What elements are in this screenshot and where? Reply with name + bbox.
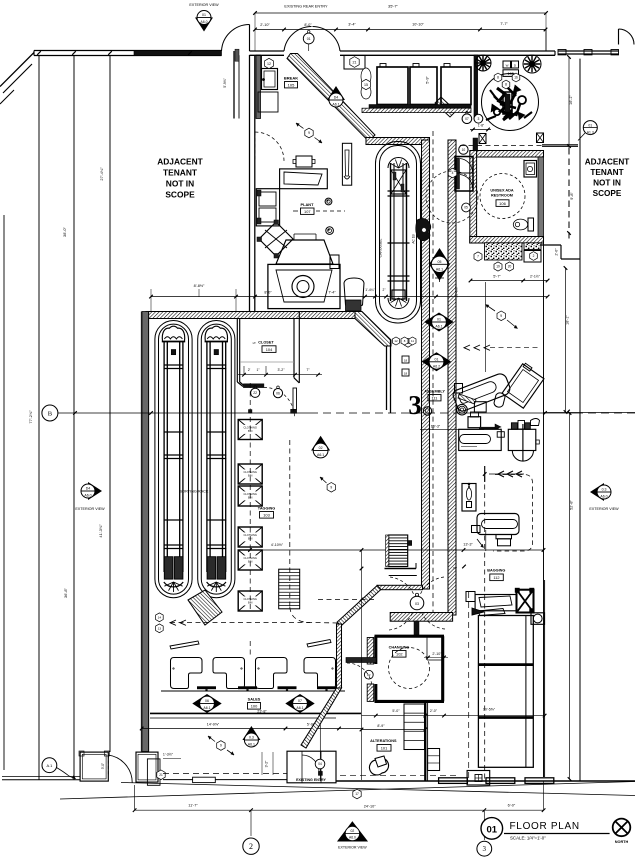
sorting room west gray wall bbox=[141, 312, 149, 752]
dim line mid window bbox=[443, 714, 547, 718]
alterations wall bbox=[425, 702, 427, 781]
mop sink fixture bbox=[524, 251, 541, 263]
spiral circle fixture 2 bbox=[423, 407, 431, 415]
keynote 9 hexagon mid bbox=[320, 477, 336, 492]
svg-text:06: 06 bbox=[205, 699, 209, 703]
sales west upper wall bbox=[387, 340, 391, 413]
changing bench shelf bbox=[346, 658, 376, 663]
dim 1'-3.5 bottom bbox=[163, 753, 181, 759]
svg-text:07: 07 bbox=[465, 117, 469, 121]
right lease line bbox=[579, 59, 581, 781]
big numeral 3 stamp bbox=[408, 390, 422, 420]
sorting rack conveyor 1 bbox=[155, 321, 192, 598]
svg-text:5'-7": 5'-7" bbox=[493, 274, 501, 278]
alterations label bbox=[370, 739, 397, 751]
storefront baseline left bbox=[2, 777, 80, 780]
svg-text:A6.0: A6.0 bbox=[200, 20, 207, 24]
bottom storefront frames bbox=[439, 778, 554, 784]
dim 27'-4 left bbox=[99, 167, 104, 181]
rear entry double door arcs bbox=[284, 27, 340, 52]
tile floor stipple box bbox=[485, 243, 523, 260]
svg-text:BAGGING: BAGGING bbox=[487, 569, 505, 573]
restroom turning circle dashed bbox=[480, 174, 525, 219]
spotting board fixture bbox=[462, 483, 476, 511]
tagging label bbox=[258, 507, 275, 519]
changing door keynote 02 bbox=[364, 670, 373, 679]
upper room west wall double bbox=[250, 55, 255, 311]
svg-text:CAROUSEL: CAROUSEL bbox=[379, 239, 383, 258]
svg-text:2: 2 bbox=[249, 842, 253, 851]
svg-text:01: 01 bbox=[437, 318, 441, 322]
section diamond 05/A6.1 bbox=[429, 248, 450, 282]
assembly machine 4 (serger) bbox=[508, 419, 539, 462]
hatched jog near break room SE bbox=[435, 97, 456, 117]
svg-text:2'-10": 2'-10" bbox=[432, 652, 442, 656]
svg-text:8'-8½": 8'-8½" bbox=[194, 284, 205, 288]
svg-text:0.3: 0.3 bbox=[602, 488, 607, 492]
svg-text:LT.: LT. bbox=[253, 341, 257, 345]
svg-text:18: 18 bbox=[404, 358, 408, 362]
svg-text:2'-0": 2'-0" bbox=[430, 709, 438, 713]
keynote 4 hexagon bbox=[448, 168, 456, 178]
svg-text:7'-7": 7'-7" bbox=[500, 22, 508, 26]
svg-text:RESTROOM: RESTROOM bbox=[491, 194, 513, 198]
existing rear entry text bbox=[284, 5, 328, 9]
svg-text:5'-9": 5'-9" bbox=[426, 76, 430, 84]
svg-text:TENANT: TENANT bbox=[163, 168, 198, 178]
locker base black band bbox=[369, 105, 471, 109]
pressing machine bbox=[268, 234, 340, 309]
svg-text:02: 02 bbox=[319, 446, 323, 450]
svg-text:9: 9 bbox=[220, 744, 222, 748]
svg-text:102: 102 bbox=[396, 651, 403, 656]
svg-text:3'-4": 3'-4" bbox=[348, 23, 356, 27]
hatched wall diagonal to corridor bbox=[355, 312, 391, 347]
svg-text:TAGGING: TAGGING bbox=[258, 507, 275, 511]
sales counter 4 bbox=[304, 658, 336, 689]
svg-text:EXISTING REAR ENTRY: EXISTING REAR ENTRY bbox=[284, 5, 328, 9]
keynote 03 circle bbox=[410, 593, 424, 610]
svg-text:A6.0: A6.0 bbox=[349, 835, 356, 839]
corridor centerline dashed bbox=[432, 131, 434, 620]
svg-text:CLOSET: CLOSET bbox=[258, 341, 274, 345]
corridor west hatched wall bbox=[422, 140, 430, 589]
adjacent tenant text right bbox=[585, 158, 630, 199]
clothing bin 5 bbox=[238, 550, 262, 570]
changing door dashed swing bbox=[347, 663, 372, 688]
exterior view marker D4/A6.0 bbox=[75, 482, 105, 511]
svg-text:104: 104 bbox=[266, 347, 273, 352]
svg-text:D4: D4 bbox=[86, 487, 91, 491]
restroom lavatory bbox=[524, 161, 537, 178]
adjacent tenant text left bbox=[157, 157, 203, 200]
svg-text:2": 2" bbox=[383, 288, 386, 292]
svg-text:112: 112 bbox=[493, 575, 499, 580]
ironing board bbox=[342, 143, 351, 185]
svg-text:01: 01 bbox=[435, 358, 439, 362]
sales counter 2 bbox=[213, 658, 245, 689]
svg-text:A6.0: A6.0 bbox=[600, 495, 607, 499]
svg-text:04: 04 bbox=[318, 762, 322, 766]
svg-text:12: 12 bbox=[394, 339, 398, 343]
svg-text:EXTERIOR VIEW: EXTERIOR VIEW bbox=[589, 507, 619, 511]
svg-text:17: 17 bbox=[355, 792, 359, 796]
svg-text:1'-8": 1'-8" bbox=[478, 124, 484, 128]
restroom west hatched wall bbox=[470, 138, 478, 243]
clothing bin 1 bbox=[238, 420, 262, 440]
svg-text:8: 8 bbox=[505, 83, 507, 87]
svg-text:103: 103 bbox=[263, 512, 270, 517]
conveyor room top hatched wall bbox=[366, 138, 430, 145]
svg-text:D4: D4 bbox=[334, 96, 339, 100]
svg-text:BIN: BIN bbox=[248, 600, 252, 604]
break room west wall bbox=[223, 49, 239, 118]
svg-text:03: 03 bbox=[415, 602, 419, 606]
sales counter 3 bbox=[256, 658, 288, 689]
svg-text:20: 20 bbox=[508, 265, 512, 269]
svg-text:14: 14 bbox=[158, 615, 162, 619]
svg-text:SCOPE: SCOPE bbox=[165, 190, 195, 200]
locker unit 2 bbox=[410, 64, 437, 105]
dim 41'-3 left bbox=[98, 524, 103, 538]
toilet bbox=[513, 218, 533, 231]
svg-text:7'-4": 7'-4" bbox=[328, 291, 336, 295]
sloped existing line A bbox=[121, 783, 635, 796]
assembly machine 2 (angled) bbox=[502, 362, 545, 408]
restroom north hatched wall bbox=[473, 151, 544, 158]
svg-text:38'-0": 38'-0" bbox=[62, 226, 67, 237]
keynote 12 hexagon bbox=[265, 58, 274, 68]
svg-text:ASSEMBLY: ASSEMBLY bbox=[424, 390, 445, 394]
wall jog right bbox=[540, 245, 580, 259]
svg-text:9: 9 bbox=[330, 486, 332, 490]
svg-text:101: 101 bbox=[381, 745, 388, 750]
entry vestibule bbox=[287, 751, 336, 783]
svg-text:16'-1": 16'-1" bbox=[569, 95, 573, 105]
machine E (bagging machine) bbox=[472, 514, 520, 535]
svg-text:8: 8 bbox=[497, 76, 499, 80]
closet label bbox=[253, 341, 276, 353]
svg-text:A.1: A.1 bbox=[46, 763, 52, 768]
svg-text:5'-0": 5'-0" bbox=[392, 709, 400, 713]
spiral plant 1 bbox=[325, 198, 332, 205]
svg-text:EXISTING ENTRY: EXISTING ENTRY bbox=[296, 778, 326, 782]
svg-text:0.3: 0.3 bbox=[249, 736, 254, 740]
svg-text:A6.1: A6.1 bbox=[203, 706, 210, 710]
grid bubble 2 bbox=[243, 838, 259, 854]
tenant demising line 1 bbox=[38, 56, 40, 781]
clothing bin 4 bbox=[238, 527, 262, 547]
keynote 17 hexagon bbox=[353, 789, 361, 799]
tenant demising line 2 bbox=[73, 56, 75, 781]
section diamond 02/A6.1 bbox=[311, 436, 330, 458]
svg-text:01: 01 bbox=[588, 123, 592, 127]
steps below stair bbox=[385, 563, 417, 576]
svg-text:CHANGING: CHANGING bbox=[389, 646, 410, 650]
svg-text:7: 7 bbox=[477, 255, 479, 259]
svg-text:77'-2⅝": 77'-2⅝" bbox=[28, 410, 33, 424]
restroom south hatched wall bbox=[470, 237, 544, 244]
svg-text:01: 01 bbox=[487, 825, 498, 836]
stockroom stair at corridor bbox=[386, 535, 412, 567]
svg-text:10'-3": 10'-3" bbox=[431, 425, 441, 429]
dim 52ft right bbox=[568, 411, 574, 781]
mech closet label boxes bbox=[503, 61, 519, 76]
dims under changing bbox=[360, 709, 446, 731]
restroom east gray wall bbox=[538, 157, 544, 237]
sloped existing line B bbox=[60, 782, 635, 800]
svg-text:35'-7": 35'-7" bbox=[388, 4, 399, 9]
shelf box with keynote 21 bbox=[344, 56, 365, 70]
dim 3'-3 rot bbox=[262, 752, 273, 775]
grid bubble B bbox=[42, 405, 58, 421]
svg-text:SCALE: 1/4"=1'-0": SCALE: 1/4"=1'-0" bbox=[510, 836, 546, 841]
keynote 9 hexagon assembly bbox=[486, 305, 518, 329]
changing room walls bbox=[367, 636, 444, 701]
sorting room north hatched wall bbox=[146, 312, 355, 319]
dim 4'-10 mid bbox=[244, 530, 545, 571]
dim 10'-3 bbox=[420, 425, 484, 430]
svg-text:05: 05 bbox=[464, 206, 468, 210]
sales label bbox=[248, 698, 261, 710]
storefront dashed centerline bbox=[163, 772, 287, 774]
svg-text:14'-9⅝": 14'-9⅝" bbox=[207, 723, 220, 727]
svg-text:3: 3 bbox=[483, 845, 487, 853]
storage cabinet bbox=[256, 189, 279, 226]
north exterior wall (double line with solid right half) bbox=[34, 51, 222, 56]
svg-text:16'-8⅝": 16'-8⅝" bbox=[455, 286, 459, 298]
svg-text:A1.3: A1.3 bbox=[587, 130, 594, 134]
dim row above racks bbox=[149, 284, 549, 311]
locker unit 1 bbox=[377, 64, 408, 105]
exterior view marker 01/A6.0 top bbox=[189, 3, 219, 32]
press table with wedge bbox=[280, 156, 328, 189]
storefront window bank bbox=[478, 616, 533, 768]
dim 10'-5 window bbox=[483, 708, 496, 712]
svg-text:19: 19 bbox=[496, 265, 500, 269]
svg-text:A6.2: A6.2 bbox=[433, 365, 440, 369]
svg-text:106: 106 bbox=[499, 201, 506, 206]
dim 9'-8 right bbox=[567, 144, 574, 200]
bottom boundary line bbox=[336, 780, 635, 782]
grid bubble A.1 bbox=[42, 758, 76, 779]
extension line left of changing bbox=[361, 550, 363, 780]
break room west gray wall band bbox=[256, 55, 261, 119]
keynote hexes near conveyor base bbox=[393, 337, 417, 345]
svg-text:11: 11 bbox=[411, 339, 414, 343]
svg-text:9'-8": 9'-8" bbox=[570, 192, 574, 200]
changing label bbox=[389, 646, 410, 658]
clothing bin 3 bbox=[238, 486, 262, 506]
svg-text:07: 07 bbox=[298, 699, 302, 703]
dim 35'-7 top bbox=[253, 4, 548, 52]
svg-text:02: 02 bbox=[351, 829, 355, 833]
svg-text:2': 2' bbox=[248, 368, 251, 372]
counter base ticks bbox=[161, 686, 345, 691]
svg-text:PLANT: PLANT bbox=[301, 202, 315, 207]
break room counter bbox=[258, 55, 278, 112]
keynote 7 hexagon bbox=[474, 252, 482, 261]
angled hatched storefront wall bbox=[301, 585, 423, 748]
svg-text:13'-3": 13'-3" bbox=[463, 543, 473, 547]
svg-text:ADJACENT: ADJACENT bbox=[585, 158, 630, 167]
tenant demising line 3 bbox=[109, 56, 111, 753]
break room east dark wall bbox=[474, 55, 478, 119]
fixture ellipses with keynote 15 bbox=[361, 68, 371, 99]
section diamond 01/A6.2 bbox=[422, 352, 451, 371]
exterior view marker 02/A6.0 bottom bbox=[338, 822, 367, 850]
svg-text:NORTH: NORTH bbox=[615, 840, 629, 844]
keynote 9 hexagon bottom bbox=[208, 736, 234, 755]
keynote 10 circle bbox=[459, 145, 468, 154]
section diamond D4/A6.1 bbox=[327, 86, 345, 107]
svg-text:41'-3⅜": 41'-3⅜" bbox=[98, 524, 103, 538]
garment steamer fixture bbox=[330, 255, 364, 311]
bagging label bbox=[487, 569, 505, 581]
plant scribble right bbox=[523, 55, 541, 73]
rear entry door 1 arc bbox=[222, 24, 250, 51]
upper room door dashed arc bbox=[255, 132, 284, 161]
carousel vertical text bbox=[379, 234, 416, 257]
right wall verticals bbox=[469, 580, 545, 780]
keynote 06 circle bbox=[273, 386, 282, 398]
svg-text:2'-10": 2'-10" bbox=[260, 23, 270, 27]
grid b extension right bbox=[544, 412, 635, 414]
circle fixture right bbox=[531, 613, 545, 625]
svg-text:05: 05 bbox=[438, 260, 442, 264]
office chair bbox=[369, 756, 388, 775]
storefront pier 3 frame bbox=[147, 759, 160, 785]
floor plan title bbox=[504, 821, 610, 841]
storefront face line mid bbox=[163, 777, 287, 782]
garment conveyor (N) rails bbox=[388, 158, 410, 309]
locker unit 3 bbox=[441, 64, 471, 105]
restroom label bbox=[490, 189, 514, 207]
svg-text:ALTERATIONS: ALTERATIONS bbox=[370, 739, 397, 743]
column X-box left bbox=[479, 134, 486, 144]
dim 38'-0 left bbox=[62, 226, 67, 237]
svg-text:5'-9⅝": 5'-9⅝" bbox=[223, 77, 227, 87]
display shelf angled left bbox=[170, 641, 199, 649]
existing entry text bbox=[296, 778, 326, 782]
assembly arrows bbox=[464, 345, 540, 350]
svg-text:AC 1B: AC 1B bbox=[412, 234, 416, 243]
clothing bin 2 bbox=[238, 464, 262, 484]
keynote 11 hexagon bbox=[404, 338, 412, 347]
keynotes 19 20 bbox=[494, 262, 514, 271]
existing storefront band right bbox=[558, 50, 619, 55]
stair hatch (sales SW) bbox=[188, 590, 222, 625]
break room label bbox=[284, 76, 298, 88]
svg-text:10: 10 bbox=[462, 148, 466, 152]
svg-text:A6.1: A6.1 bbox=[317, 453, 324, 457]
top-left exterior corner diagonals bbox=[0, 53, 34, 105]
svg-text:52'-8": 52'-8" bbox=[570, 500, 574, 510]
bottom wall dashed bbox=[340, 774, 460, 776]
svg-text:NOT IN: NOT IN bbox=[593, 179, 621, 188]
svg-text:4'-10½": 4'-10½" bbox=[271, 543, 284, 547]
svg-text:9: 9 bbox=[500, 314, 502, 318]
north wall mid segment bbox=[250, 51, 285, 55]
sales counter 1 bbox=[171, 658, 203, 689]
keynote 22 circle bbox=[251, 386, 260, 398]
garment conveyor (N) racetrack outer bbox=[376, 142, 421, 324]
svg-text:NOT IN: NOT IN bbox=[166, 179, 194, 189]
svg-text:12: 12 bbox=[267, 62, 271, 66]
svg-text:4: 4 bbox=[452, 171, 454, 175]
svg-text:3: 3 bbox=[408, 390, 422, 420]
svg-text:27'-4⅛": 27'-4⅛" bbox=[99, 167, 104, 181]
sorting rack text bbox=[180, 490, 209, 494]
title circle 01 bbox=[481, 818, 503, 840]
ref circle 01/A1.3 bbox=[578, 121, 597, 141]
svg-text:107: 107 bbox=[304, 209, 311, 214]
dim 23'-8 bbox=[257, 710, 267, 714]
svg-text:13: 13 bbox=[158, 626, 162, 630]
svg-text:3: 3 bbox=[477, 117, 479, 121]
svg-text:8'-0": 8'-0" bbox=[264, 291, 272, 295]
svg-text:15: 15 bbox=[364, 83, 368, 87]
svg-text:A6.1: A6.1 bbox=[248, 743, 255, 747]
ref circle 01 at rear entry bbox=[303, 30, 314, 51]
keynote 9 hexagon upper bbox=[296, 123, 322, 143]
keynote hexagons 8/8/16 bbox=[494, 73, 520, 89]
svg-text:ADJACENT: ADJACENT bbox=[157, 157, 203, 167]
assembly machine 1 (ironing table) bbox=[452, 372, 512, 413]
column X-box right bbox=[537, 133, 544, 143]
svg-text:8'-0": 8'-0" bbox=[304, 23, 312, 27]
svg-text:EXTERIOR VIEW: EXTERIOR VIEW bbox=[75, 507, 105, 511]
lease line far left bbox=[3, 215, 5, 770]
grid bubble 3 bbox=[477, 841, 492, 856]
dim 16-9 small bbox=[365, 288, 385, 292]
entry vestibule jamb line bbox=[545, 30, 547, 52]
plant label bbox=[293, 202, 345, 214]
closet dims bbox=[238, 366, 322, 377]
dim 2'-10 changing bbox=[424, 652, 448, 659]
dim 13'-3 bbox=[463, 539, 483, 548]
dim 5'-7 bbox=[455, 274, 550, 372]
svg-text:W: W bbox=[506, 63, 509, 67]
keynote 07 and 3 bbox=[462, 112, 491, 132]
double door dashed arcs bbox=[389, 577, 445, 630]
north wall right segment bbox=[340, 51, 555, 55]
water heater circle with equipment scribbles bbox=[482, 74, 539, 131]
keynote 21 hexagon bottom bbox=[157, 770, 165, 780]
bottom dim line bbox=[133, 781, 546, 840]
wall return at lease line bbox=[460, 145, 578, 147]
svg-text:21: 21 bbox=[159, 773, 163, 777]
svg-text:18'-1": 18'-1" bbox=[566, 315, 570, 325]
svg-text:8'-9": 8'-9" bbox=[377, 724, 385, 728]
ada clearance dashed circle bbox=[426, 171, 478, 223]
svg-text:B: B bbox=[48, 411, 53, 418]
assembly machine 3 (press) bbox=[459, 412, 505, 451]
restroom shelf unit bbox=[455, 157, 473, 192]
keynote 14 13 hexagons bbox=[156, 613, 164, 633]
assembly room label bbox=[424, 390, 445, 401]
svg-text:2: 2 bbox=[533, 254, 535, 258]
electrical panel box bbox=[467, 771, 490, 786]
svg-text:01: 01 bbox=[307, 37, 311, 41]
east boundary line bbox=[543, 240, 545, 777]
spiral plant 2 bbox=[326, 227, 334, 235]
exterior view marker D3/A6.0 right bbox=[589, 483, 619, 511]
sales dashed aisle bbox=[170, 620, 310, 625]
svg-text:100: 100 bbox=[251, 703, 258, 708]
svg-text:3'-2": 3'-2" bbox=[278, 368, 286, 372]
svg-text:1'-3½": 1'-3½" bbox=[163, 753, 174, 757]
